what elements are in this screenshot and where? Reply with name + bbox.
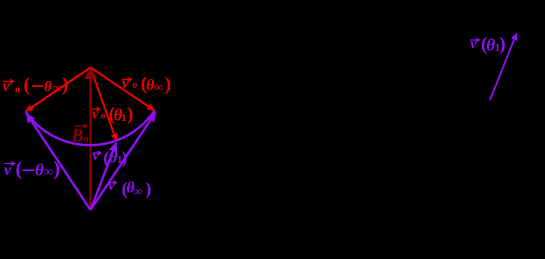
svg-text:): ) [127,104,133,125]
svg-text:θ: θ [44,80,52,96]
wire: purple vector v(-theta_inf) from origin O to L [27,114,91,211]
svg-text:o: o [15,85,20,96]
svg-text:v: v [3,78,11,95]
svg-text:v: v [108,179,115,194]
dark red arrowhead of B_o at apex A [84,68,97,79]
wire: purple vector v(theta_inf) from origin O to R [91,113,156,211]
svg-text:∞: ∞ [52,82,62,97]
svg-text:(: ( [24,75,30,96]
wire: purple vector v(theta_1) in right figure [490,34,517,101]
label vec v(theta_1) purple right figure [470,34,505,55]
svg-text:o: o [101,111,106,121]
label vec v(theta_1) purple middle [93,147,128,168]
svg-text:o: o [132,80,137,91]
label vec v_o(theta_inf) red top-right [122,74,171,96]
svg-text:(: ( [16,158,23,180]
svg-text:v: v [122,75,130,92]
svg-text:): ) [145,179,151,200]
purple circular arc through L P R centered on A [26,111,155,146]
wire: red vector v_o(theta_1) from center A to point P on circle [91,68,117,142]
svg-text:B: B [71,125,84,145]
svg-text:∞: ∞ [154,81,164,96]
label vec B_o dark red [71,124,89,145]
svg-text:v: v [92,107,99,123]
svg-text:∞: ∞ [43,165,53,180]
label vec v_o(-theta_inf) red top-left [3,75,69,97]
svg-text:o: o [84,134,89,145]
svg-text:v: v [470,37,477,52]
label vec v(-theta_inf) purple lower-left [4,158,60,180]
svg-text:): ) [499,34,505,55]
wire: dark red vector B_o shaft from origin O up to apex A [89,79,91,211]
label vec v(theta_inf) purple lower-middle [108,179,151,200]
label vec v_o(theta_1) red middle [92,104,134,125]
svg-text:): ) [121,147,127,168]
svg-text:): ) [54,158,61,180]
svg-text:1: 1 [121,112,127,124]
svg-text:): ) [165,74,171,95]
wire: purple vector v(theta_1) from origin O to P [91,143,117,210]
svg-text:∞: ∞ [133,184,142,199]
svg-text:v: v [4,162,12,179]
wire: red vector v_o(theta_inf) from center A to right point R [91,68,155,111]
wire: red vector v_o(-theta_inf) from center A to left point L [26,68,91,112]
svg-text:v: v [93,149,100,164]
svg-text:): ) [62,75,68,96]
